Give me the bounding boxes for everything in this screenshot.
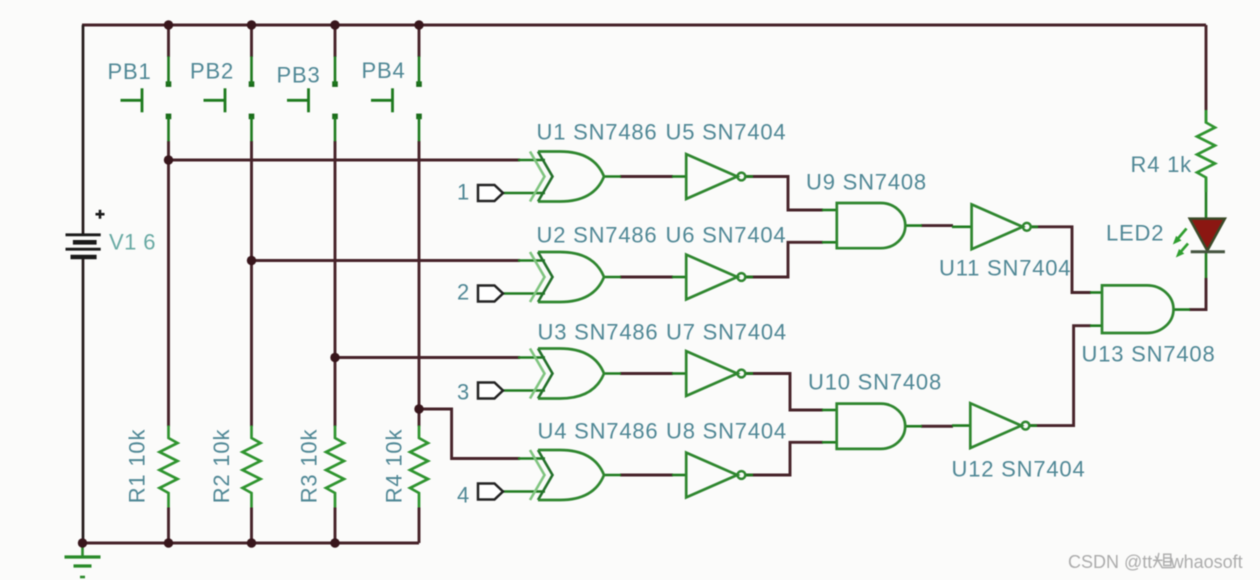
svg-text:R4 10k: R4 10k (382, 429, 407, 504)
svg-text:3: 3 (457, 380, 470, 405)
svg-text:U13 SN7408: U13 SN7408 (1082, 342, 1216, 367)
svg-text:U1 SN7486: U1 SN7486 (537, 120, 658, 145)
svg-text:CSDN @tt: CSDN @tt (1068, 552, 1152, 572)
svg-text:PB2: PB2 (190, 59, 234, 84)
svg-text:U12 SN7404: U12 SN7404 (952, 457, 1086, 482)
svg-text:U11 SN7404: U11 SN7404 (939, 256, 1071, 281)
svg-text:1: 1 (457, 180, 470, 205)
svg-text:4: 4 (457, 483, 470, 508)
svg-text:U7 SN7404: U7 SN7404 (666, 320, 787, 345)
svg-text:U5 SN7404: U5 SN7404 (666, 120, 787, 145)
svg-text:PB3: PB3 (277, 63, 321, 88)
svg-text:PB4: PB4 (362, 58, 406, 83)
svg-text:U8 SN7404: U8 SN7404 (666, 419, 787, 444)
svg-text:PB1: PB1 (108, 59, 152, 84)
svg-text:U9 SN7408: U9 SN7408 (806, 170, 927, 195)
svg-text:R4 1k: R4 1k (1131, 152, 1193, 177)
svg-text:2: 2 (457, 280, 470, 305)
svg-text:U2 SN7486: U2 SN7486 (537, 223, 658, 248)
svg-text:U6 SN7404: U6 SN7404 (666, 223, 787, 248)
svg-text:R3 10k: R3 10k (297, 429, 322, 504)
svg-text:U4 SN7486: U4 SN7486 (538, 419, 659, 444)
svg-text:whaosoft: whaosoft (1170, 552, 1243, 572)
svg-text:V1 6: V1 6 (109, 230, 156, 255)
svg-text:LED2: LED2 (1106, 221, 1164, 246)
svg-text:R1 10k: R1 10k (125, 429, 150, 504)
svg-text:U3 SN7486: U3 SN7486 (538, 320, 659, 345)
svg-text:U10 SN7408: U10 SN7408 (808, 370, 942, 395)
svg-text:R2 10k: R2 10k (209, 429, 234, 504)
